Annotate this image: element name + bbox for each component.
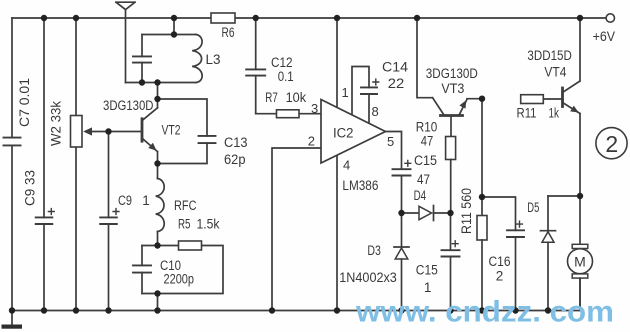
wire tank bottom bbox=[126, 82, 197, 84]
svg-text:4: 4 bbox=[343, 158, 350, 173]
svg-text:C16: C16 bbox=[489, 254, 511, 269]
capacitor C9 1 (electrolytic, wiper branch) bbox=[100, 132, 119, 311]
svg-text:1: 1 bbox=[342, 85, 349, 100]
svg-text:R11 560: R11 560 bbox=[459, 188, 474, 234]
wire bottom ground rail bbox=[12, 278, 580, 310]
svg-text:10k: 10k bbox=[286, 90, 307, 105]
junction dots bottom rail bbox=[9, 307, 551, 313]
diode D3 bbox=[394, 213, 409, 311]
junction dots mid circuit bbox=[105, 31, 583, 296]
svg-text:1: 1 bbox=[142, 193, 150, 208]
svg-text:C7 0.01: C7 0.01 bbox=[17, 78, 32, 127]
transistor VT3 bbox=[417, 18, 482, 137]
svg-text:3DG130D: 3DG130D bbox=[426, 66, 478, 81]
capacitor C15 47 (electrolytic) bbox=[393, 160, 411, 213]
capacitor C7 bbox=[4, 18, 21, 311]
svg-text:C15: C15 bbox=[414, 153, 437, 168]
node 2 (circled figure number) bbox=[596, 128, 627, 159]
node tank top (stub from rail) bbox=[173, 18, 175, 35]
svg-text:3DD15D: 3DD15D bbox=[527, 48, 572, 63]
capacitor C9 33 (electrolytic) bbox=[36, 18, 55, 311]
inductor RFC bbox=[156, 164, 165, 246]
svg-text:2: 2 bbox=[308, 134, 315, 149]
svg-text:R10: R10 bbox=[416, 120, 438, 135]
svg-text:3DG130D: 3DG130D bbox=[103, 98, 154, 113]
resistor R6 bbox=[211, 13, 235, 23]
capacitor C13 bbox=[158, 99, 216, 164]
transistor VT2 bbox=[109, 83, 158, 164]
potentiometer W2 bbox=[71, 18, 109, 311]
svg-text:M: M bbox=[574, 253, 586, 269]
svg-text:VT4: VT4 bbox=[544, 65, 566, 80]
svg-text:www. cndzz. com: www. cndzz. com bbox=[355, 296, 614, 329]
wire IC2 pin5 output bbox=[386, 132, 402, 170]
svg-text:C12: C12 bbox=[271, 55, 293, 70]
wire tank top bbox=[142, 34, 196, 36]
wire IC2 pin4 to ground bbox=[336, 155, 338, 310]
svg-text:IC2: IC2 bbox=[333, 126, 354, 141]
capacitor C16 (electrolytic) bbox=[482, 197, 524, 311]
ground bbox=[2, 311, 23, 329]
wire IC2 pin2 to ground bbox=[272, 148, 321, 311]
svg-text:2200p: 2200p bbox=[164, 272, 195, 287]
motor M bbox=[568, 196, 593, 311]
svg-text:+6V: +6V bbox=[593, 29, 616, 44]
terminal +6V bbox=[606, 14, 614, 22]
svg-text:5: 5 bbox=[387, 134, 394, 149]
svg-text:C9: C9 bbox=[118, 193, 132, 208]
svg-text:1N4002x3: 1N4002x3 bbox=[339, 270, 397, 285]
svg-text:W2 33k: W2 33k bbox=[49, 101, 64, 146]
svg-text:R5: R5 bbox=[178, 217, 191, 232]
svg-text:C14: C14 bbox=[382, 60, 409, 75]
diode D5 bbox=[541, 196, 581, 311]
wire IC2 pin1 from rail bbox=[336, 18, 338, 107]
svg-text:1: 1 bbox=[424, 280, 432, 295]
resistor R11 1k bbox=[521, 95, 562, 104]
capacitor C12 bbox=[246, 18, 265, 114]
svg-text:C13: C13 bbox=[224, 135, 248, 150]
svg-text:47: 47 bbox=[421, 134, 434, 149]
svg-text:VT2: VT2 bbox=[162, 123, 181, 138]
resistor R5 with capacitor C10 loop bbox=[133, 241, 223, 311]
svg-text:D5: D5 bbox=[527, 200, 539, 215]
resistor R10 bbox=[446, 137, 456, 214]
svg-text:D4: D4 bbox=[414, 188, 427, 203]
inductor L3 bbox=[192, 35, 202, 83]
svg-text:1k: 1k bbox=[549, 106, 560, 121]
transistor VT4 bbox=[563, 18, 581, 196]
capacitor C14 (pins 1-8) bbox=[352, 67, 379, 124]
svg-text:R11: R11 bbox=[517, 106, 537, 121]
svg-text:22: 22 bbox=[388, 76, 405, 91]
junction dots top rail bbox=[41, 15, 583, 21]
svg-text:62p: 62p bbox=[224, 152, 246, 167]
svg-text:2: 2 bbox=[496, 269, 504, 284]
svg-text:R6: R6 bbox=[222, 25, 235, 40]
diode D4 bbox=[402, 206, 451, 221]
svg-text:47: 47 bbox=[417, 172, 430, 187]
wire top +6V rail bbox=[12, 17, 606, 19]
resistor R11 560 bbox=[477, 99, 487, 311]
capacitor C15 1 (electrolytic) bbox=[442, 213, 460, 311]
svg-text:0.1: 0.1 bbox=[278, 69, 294, 84]
svg-text:2: 2 bbox=[605, 131, 618, 157]
antenna bbox=[116, 2, 135, 82]
resistor R7 bbox=[256, 110, 321, 118]
svg-text:3: 3 bbox=[311, 101, 318, 116]
svg-text:LM386: LM386 bbox=[342, 178, 378, 193]
svg-text:C15: C15 bbox=[416, 263, 438, 278]
svg-text:L3: L3 bbox=[206, 52, 221, 67]
capacitor tank (no label) bbox=[133, 35, 151, 83]
svg-text:RFC: RFC bbox=[174, 198, 197, 213]
svg-text:D3: D3 bbox=[367, 243, 381, 258]
svg-text:R7: R7 bbox=[265, 90, 278, 105]
svg-text:C9 33: C9 33 bbox=[23, 170, 38, 206]
op-amp IC2 (LM386) bbox=[321, 100, 386, 164]
svg-text:VT3: VT3 bbox=[441, 81, 464, 96]
svg-text:1.5k: 1.5k bbox=[197, 217, 220, 232]
svg-text:8: 8 bbox=[372, 104, 379, 119]
